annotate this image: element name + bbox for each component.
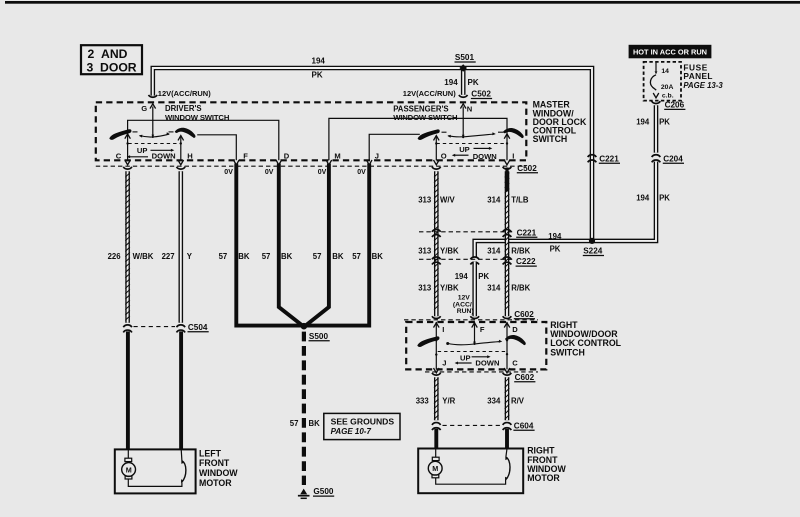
- svg-text:334: 334: [487, 397, 501, 406]
- wire 57 BK terminal F to S500: [236, 164, 304, 326]
- svg-text:D: D: [512, 325, 518, 334]
- svg-text:314: 314: [487, 247, 501, 256]
- hatch marks wire 314: [505, 173, 510, 310]
- svg-text:57: 57: [313, 252, 322, 261]
- svg-text:PK: PK: [312, 71, 323, 80]
- wire BK driver window motor feed left: [126, 331, 130, 449]
- label 14 (fuse position): [661, 68, 669, 75]
- wire 194 PK from S224 west to C222 drop: [475, 241, 592, 257]
- label BK (ground wire): [309, 419, 321, 428]
- label 314 (R/BK lower): [487, 284, 501, 293]
- svg-text:M: M: [334, 152, 340, 161]
- svg-text:C604: C604: [514, 421, 534, 430]
- svg-text:MOTOR: MOTOR: [527, 473, 560, 483]
- label C206: [664, 101, 685, 110]
- circuit breaker 20A element: [650, 75, 656, 90]
- svg-text:Y/R: Y/R: [442, 397, 455, 406]
- label 314 (T/LB): [487, 195, 501, 204]
- driver right rocker contact: [175, 128, 196, 138]
- svg-text:C221: C221: [599, 154, 619, 163]
- svg-text:194: 194: [636, 118, 650, 127]
- right window/door lock control switch dashed box: [406, 322, 546, 369]
- svg-text:PAGE 13-3: PAGE 13-3: [683, 81, 723, 90]
- passenger UP label and arrow: [459, 145, 492, 154]
- svg-text:57: 57: [219, 252, 228, 261]
- terminal G label: [141, 104, 147, 113]
- svg-text:194: 194: [444, 78, 458, 87]
- svg-text:C206: C206: [665, 101, 685, 110]
- label Y: [187, 252, 193, 261]
- svg-text:O: O: [441, 152, 447, 161]
- connector C221 on vertical PK run: [588, 155, 597, 163]
- svg-text:Y: Y: [187, 252, 193, 261]
- svg-text:F: F: [480, 325, 485, 334]
- svg-text:DOWN: DOWN: [473, 152, 497, 161]
- wire 57 BK terminal D to S500: [279, 164, 303, 327]
- svg-text:0V: 0V: [224, 169, 233, 176]
- svg-text:C502: C502: [517, 164, 537, 173]
- svg-text:0V: 0V: [357, 169, 366, 176]
- svg-text:0V: 0V: [318, 169, 327, 176]
- terminal H label: [187, 152, 192, 161]
- hatch marks wire 313: [434, 173, 439, 310]
- label 313 (Y/BK upper): [418, 247, 432, 256]
- label c.b.: [662, 92, 674, 99]
- ground G500 symbol: [298, 489, 310, 499]
- label PASSENGER'S WINDOW SWITCH: [393, 104, 458, 122]
- svg-text:W/V: W/V: [440, 195, 456, 204]
- svg-text:194: 194: [312, 56, 326, 65]
- right switch terminal arrows top: [434, 323, 510, 328]
- label PK (S501 drop): [468, 78, 479, 87]
- passenger right rocker contact: [503, 128, 524, 138]
- svg-text:SEE GROUNDS: SEE GROUNDS: [331, 417, 395, 427]
- see grounds note box: [324, 413, 400, 439]
- svg-text:BK: BK: [281, 252, 293, 261]
- connector C204: [652, 155, 661, 163]
- label 194 (S501 drop): [444, 78, 458, 87]
- svg-text:T/LB: T/LB: [511, 195, 529, 204]
- label 313 (Y/BK lower): [418, 284, 432, 293]
- label 12V (ACC/RUN) center: [453, 295, 474, 315]
- svg-text:333: 333: [416, 397, 430, 406]
- svg-text:C: C: [116, 152, 122, 161]
- wire 194 PK fuse panel to C204: [654, 105, 659, 152]
- label 57 BK group: [219, 252, 384, 261]
- wire 333 Y/R: [434, 377, 439, 420]
- dark segment of wire 314 below I: [505, 168, 508, 192]
- svg-text:J: J: [375, 152, 379, 161]
- terminal N label: [467, 104, 472, 113]
- label PK (center): [478, 272, 489, 281]
- label R/BK (lower): [511, 284, 530, 293]
- wire 334 R/V: [505, 377, 510, 420]
- label 0V terminal F: [224, 169, 233, 176]
- arrow out of breaker: [653, 93, 659, 98]
- passenger J branch line: [369, 134, 420, 160]
- driver DOWN label and arrow: [127, 152, 176, 161]
- wire 57 BK S500 to G500 dashed: [302, 332, 306, 485]
- svg-text:S501: S501: [455, 53, 475, 62]
- svg-text:14: 14: [661, 68, 669, 75]
- svg-text:Y/BK: Y/BK: [440, 284, 459, 293]
- svg-text:H: H: [187, 152, 192, 161]
- svg-text:Y/BK: Y/BK: [440, 247, 459, 256]
- svg-text:227: 227: [162, 252, 175, 261]
- connector C502 half-shell at passenger N: [459, 95, 468, 97]
- wire 194 PK from C222 to C602: [472, 262, 477, 317]
- svg-text:313: 313: [418, 195, 432, 204]
- label RIGHT WINDOW/DOOR LOCK CONTROL SWITCH: [550, 320, 621, 357]
- svg-text:BK: BK: [309, 419, 321, 428]
- connector C602 shells (bottom): [432, 373, 511, 375]
- terminal M label: [334, 152, 340, 161]
- svg-text:WINDOW: WINDOW: [199, 468, 238, 478]
- label 313 (W/V): [418, 195, 432, 204]
- passenger O contact line: [434, 136, 440, 161]
- right switch D-C line: [506, 322, 508, 369]
- wire 194 PK from driver switch G to top run, corner at x592 down to S224: [153, 68, 592, 241]
- terminal C label (right switch): [512, 358, 518, 367]
- svg-text:PK: PK: [478, 272, 489, 281]
- driver left rocker contact: [109, 129, 131, 140]
- hatch marks wire 226: [125, 173, 130, 321]
- svg-text:MOTOR: MOTOR: [199, 478, 232, 488]
- driver left rocker contact arrow: [125, 134, 131, 139]
- right motor drive arc: [505, 449, 510, 481]
- legend box 2 AND 3 DOOR: [81, 45, 142, 74]
- svg-text:57: 57: [290, 419, 299, 428]
- wire 314 T/LB-R/BK from I to C602: [505, 171, 510, 316]
- svg-text:194: 194: [455, 272, 469, 281]
- svg-text:UP: UP: [137, 146, 148, 155]
- label W/BK: [133, 252, 154, 261]
- wire BK driver window motor feed right: [179, 331, 183, 449]
- label S501: [455, 53, 476, 62]
- svg-text:S224: S224: [583, 247, 603, 256]
- svg-text:313: 313: [418, 247, 432, 256]
- splice S224: [589, 238, 595, 244]
- label MASTER WINDOW/DOOR LOCK CONTROL SWITCH: [533, 100, 587, 144]
- splice S501: [459, 64, 467, 72]
- driver switch top bus: [128, 120, 279, 160]
- driver H contact line: [178, 136, 184, 161]
- terminal J label: [375, 152, 379, 161]
- label 194 (fuse drop): [636, 118, 650, 127]
- label 12V(ACC/RUN) passenger: [403, 89, 456, 98]
- svg-text:FRONT: FRONT: [199, 458, 230, 468]
- svg-text:C504: C504: [188, 323, 208, 332]
- label PK (top run): [312, 71, 323, 80]
- svg-text:SWITCH: SWITCH: [533, 134, 568, 144]
- right switch I-J line: [435, 322, 437, 369]
- label S500: [309, 332, 330, 341]
- svg-text:12V(ACC/RUN): 12V(ACC/RUN): [158, 89, 211, 98]
- svg-text:HOT IN ACC OR RUN: HOT IN ACC OR RUN: [633, 48, 707, 57]
- svg-text:313: 313: [418, 284, 432, 293]
- splice S500: [301, 323, 308, 330]
- wire 57 BK terminal J to S500: [304, 164, 369, 326]
- label T/LB: [511, 195, 529, 204]
- svg-text:3 DOOR: 3 DOOR: [87, 61, 137, 75]
- svg-text:c.b.: c.b.: [662, 92, 674, 99]
- svg-text:194: 194: [548, 232, 562, 241]
- label 57 (ground wire): [290, 419, 299, 428]
- svg-text:C602: C602: [514, 310, 534, 319]
- label C221 (center): [516, 228, 537, 237]
- terminal I label (right switch): [442, 325, 444, 334]
- svg-text:C502: C502: [471, 90, 491, 99]
- terminal D label: [284, 152, 290, 161]
- svg-text:RUN): RUN): [457, 308, 474, 315]
- svg-text:226: 226: [108, 252, 122, 261]
- wire 313 W/V-Y/BK from O to C602: [434, 171, 439, 316]
- svg-text:M: M: [432, 464, 438, 473]
- label 334: [487, 397, 501, 406]
- label 227: [162, 252, 175, 261]
- svg-text:BK: BK: [372, 252, 384, 261]
- svg-text:UP: UP: [460, 353, 471, 362]
- label C604: [513, 421, 534, 430]
- connector C502 half-shell at driver G: [149, 95, 158, 97]
- svg-text:S500: S500: [309, 332, 329, 341]
- driver UP label and arrow: [137, 146, 174, 155]
- right front window motor box: [418, 449, 523, 494]
- svg-text:PK: PK: [659, 194, 670, 203]
- label PK (fuse drop): [659, 118, 670, 127]
- right switch F feed line: [473, 322, 476, 345]
- right switch left rocker contact: [417, 336, 439, 347]
- label Y/BK (lower): [440, 284, 459, 293]
- terminal F label: [243, 152, 248, 161]
- svg-text:I: I: [442, 325, 444, 334]
- terminal J label (right switch): [442, 358, 446, 367]
- svg-text:BK: BK: [238, 252, 250, 261]
- right switch wiper path: [446, 340, 502, 345]
- label 194 (lower fuse drop): [636, 194, 650, 203]
- svg-text:D: D: [284, 152, 290, 161]
- svg-text:BK: BK: [332, 252, 344, 261]
- top border strip: [5, 1, 800, 4]
- wire 226 W/BK from C to C504: [125, 171, 130, 323]
- svg-text:C221: C221: [517, 228, 537, 237]
- left motor drive arc: [181, 449, 186, 483]
- hatch marks wire 333: [434, 378, 439, 420]
- label W/V: [440, 195, 456, 204]
- passenger switch top bus: [329, 118, 507, 160]
- label C222: [516, 257, 537, 266]
- label FUSE PANEL PAGE 13-3: [683, 63, 723, 90]
- svg-text:314: 314: [487, 195, 501, 204]
- wire 57 BK terminal M to S500: [305, 164, 329, 327]
- right switch UP label and arrow: [460, 353, 491, 362]
- label C221 (right): [599, 154, 620, 163]
- svg-text:PK: PK: [550, 244, 561, 253]
- connector C222 dashed line: [419, 258, 515, 260]
- label S224: [583, 247, 604, 256]
- svg-text:R/BK: R/BK: [511, 284, 530, 293]
- label G500: [313, 487, 334, 496]
- svg-text:PANEL: PANEL: [683, 71, 713, 81]
- label PK (S224 west): [550, 244, 561, 253]
- label C602 (bottom): [514, 373, 535, 382]
- wire BK right motor feed right: [505, 429, 509, 448]
- label Y/R: [442, 397, 455, 406]
- svg-text:C222: C222: [516, 257, 536, 266]
- svg-text:N: N: [467, 104, 472, 113]
- svg-text:G: G: [141, 104, 147, 113]
- wire BK right motor feed left: [434, 429, 438, 448]
- label 333: [416, 397, 430, 406]
- label 20A: [661, 84, 674, 91]
- label 0V terminal M: [318, 169, 327, 176]
- terminal C label: [116, 152, 122, 161]
- fuse panel dashed box: [644, 62, 681, 101]
- svg-text:C: C: [512, 358, 518, 367]
- right switch terminal arrows bottom: [434, 368, 510, 373]
- connector C221 shells: [432, 229, 511, 237]
- label 194 (top run): [312, 56, 326, 65]
- passenger left rocker contact: [418, 129, 440, 140]
- svg-text:C602: C602: [515, 373, 535, 382]
- label DRIVER'S WINDOW SWITCH: [165, 104, 230, 122]
- svg-text:R/BK: R/BK: [511, 247, 530, 256]
- svg-text:194: 194: [636, 194, 650, 203]
- wire 227 Y from H to C504: [179, 171, 184, 323]
- label PK (lower fuse drop): [659, 194, 670, 203]
- svg-text:12V(ACC/RUN): 12V(ACC/RUN): [403, 89, 456, 98]
- svg-text:20A: 20A: [661, 84, 674, 91]
- svg-text:PK: PK: [659, 118, 670, 127]
- label C504: [188, 323, 209, 332]
- svg-text:SWITCH: SWITCH: [550, 347, 585, 357]
- connector C221 dashed line: [419, 231, 515, 233]
- terminal D label (right switch): [512, 325, 518, 334]
- HOT IN ACC OR RUN banner: [629, 45, 712, 59]
- label 0V terminal J: [357, 169, 366, 176]
- terminal F label (right switch): [480, 325, 485, 334]
- connector C504: [123, 325, 185, 333]
- connector C206 half-shell: [652, 101, 661, 103]
- passenger right rocker contact arrow: [504, 134, 510, 139]
- wire 194 PK from C204 to S224 corner: [592, 162, 656, 241]
- driver F branch line: [197, 135, 236, 161]
- connector C602 dashed line (bottom): [425, 371, 538, 373]
- label R/BK (upper): [511, 247, 530, 256]
- label 194 (center): [455, 272, 469, 281]
- label C502 (bottom): [517, 164, 538, 173]
- label 0V terminal D: [265, 169, 274, 176]
- label 12V(ACC/RUN) driver: [158, 89, 211, 98]
- master window/door lock control switch dashed box: [96, 102, 527, 160]
- master box terminal arrows: [125, 160, 510, 165]
- right switch DOWN label and arrow: [455, 358, 500, 367]
- driver rocker linkage dashes: [126, 132, 182, 145]
- passenger rocker linkage dashes: [435, 132, 508, 145]
- wire S501 drop to C502 (passenger N): [461, 69, 466, 95]
- hatch marks wire 334: [505, 378, 510, 420]
- connector C502 dashed line under master box: [96, 165, 527, 167]
- passenger switch wiper path: [447, 132, 496, 138]
- terminal O label: [441, 152, 447, 161]
- left motor M symbol: [122, 449, 182, 486]
- svg-text:WINDOW SWITCH: WINDOW SWITCH: [393, 113, 458, 122]
- label 226: [108, 252, 122, 261]
- label C502 (top): [471, 90, 492, 99]
- connector C502 half-shells on wires C H O I: [123, 167, 511, 169]
- left front window motor box: [115, 449, 196, 493]
- driver switch wiper path: [139, 132, 170, 137]
- right switch linkage dashed line: [438, 351, 507, 353]
- svg-text:G500: G500: [313, 487, 333, 496]
- label RIGHT FRONT WINDOW MOTOR: [527, 446, 566, 483]
- svg-text:W/BK: W/BK: [133, 252, 154, 261]
- svg-text:0V: 0V: [265, 169, 274, 176]
- label Y/BK (upper): [440, 247, 459, 256]
- svg-text:DRIVER'S: DRIVER'S: [165, 104, 202, 113]
- label R/V: [511, 397, 525, 406]
- svg-text:57: 57: [352, 252, 361, 261]
- connector C222 shells: [432, 257, 511, 265]
- svg-text:R/V: R/V: [511, 397, 525, 406]
- svg-text:2 AND: 2 AND: [88, 47, 128, 61]
- svg-text:LEFT: LEFT: [199, 448, 222, 458]
- svg-text:57: 57: [262, 252, 271, 261]
- right switch right rocker contact: [505, 335, 526, 345]
- label 194 (S224 west): [548, 232, 562, 241]
- connector C602 shells (top): [432, 316, 511, 318]
- arrow into breaker: [655, 71, 658, 74]
- svg-text:PAGE 10-7: PAGE 10-7: [331, 427, 372, 436]
- svg-text:DOWN: DOWN: [475, 358, 499, 367]
- terminal G arrow and feed line: [150, 104, 156, 138]
- svg-text:PK: PK: [468, 78, 479, 87]
- right motor M symbol: [428, 449, 505, 485]
- svg-text:J: J: [442, 358, 446, 367]
- terminal I label: [512, 152, 514, 161]
- svg-text:UP: UP: [459, 145, 470, 154]
- passenger DOWN label and arrow: [452, 152, 497, 161]
- label LEFT FRONT WINDOW MOTOR: [199, 448, 238, 488]
- svg-text:I: I: [512, 152, 514, 161]
- label C204: [663, 154, 684, 163]
- svg-text:DOWN: DOWN: [152, 152, 176, 161]
- svg-text:M: M: [126, 465, 132, 474]
- label 314 (R/BK upper): [487, 247, 501, 256]
- svg-text:C204: C204: [663, 154, 683, 163]
- connector C604: [432, 423, 511, 431]
- connector C602 dashed line (top): [404, 319, 538, 321]
- fuse feed wire into breaker: [655, 62, 657, 71]
- svg-text:F: F: [243, 152, 248, 161]
- terminal N arrow and feed line: [460, 104, 466, 138]
- label C602 (top): [514, 310, 535, 319]
- svg-text:314: 314: [487, 284, 501, 293]
